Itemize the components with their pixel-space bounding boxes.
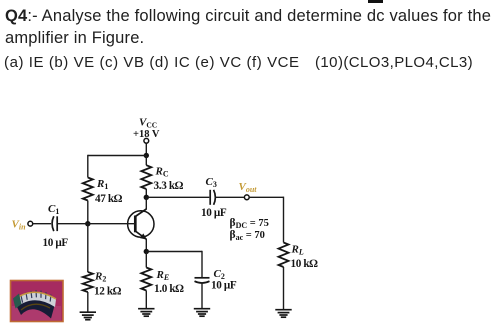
resistor RC <box>141 165 183 192</box>
wire RC bottom <box>145 189 147 197</box>
wire VCC stub <box>145 143 147 155</box>
svg-text:RL: RL <box>291 244 304 257</box>
svg-text:12 kΩ: 12 kΩ <box>94 285 122 297</box>
wire R1 top <box>87 155 89 178</box>
svg-text:VCC: VCC <box>139 117 157 130</box>
capacitor C3 <box>201 176 227 219</box>
wire Vout to RL corner <box>249 197 283 243</box>
wire RL to ground <box>283 267 285 310</box>
node emitter junction <box>144 249 149 254</box>
wire R1 bottom to base node <box>87 201 89 224</box>
svg-text:10 μF: 10 μF <box>201 207 227 219</box>
node base junction <box>85 221 90 226</box>
svg-text:RC: RC <box>155 166 169 179</box>
svg-text:10 μF: 10 μF <box>43 237 69 249</box>
wire emitter node to C2 branch <box>146 251 202 277</box>
node top junction <box>144 153 149 158</box>
resistor R2 <box>83 271 122 298</box>
svg-text:3.3 kΩ: 3.3 kΩ <box>154 180 184 192</box>
label beta DC = 75 <box>230 217 269 230</box>
svg-text:10 μF: 10 μF <box>211 279 237 291</box>
svg-text:1.0 kΩ: 1.0 kΩ <box>154 283 184 295</box>
resistor RE <box>141 252 184 296</box>
ground G1 <box>80 312 96 320</box>
wire R2 to ground <box>87 292 89 312</box>
terminal Vin <box>28 221 33 226</box>
ground G4 <box>275 310 291 318</box>
svg-text:C3: C3 <box>206 176 217 189</box>
svg-text:R2: R2 <box>94 271 106 284</box>
wire Vin to C1 <box>33 223 51 225</box>
sub-question list <box>4 54 300 71</box>
resistor R1 <box>83 178 123 206</box>
wire C2 to ground <box>201 283 203 308</box>
resistor RL <box>279 243 319 271</box>
svg-text:βac = 70: βac = 70 <box>230 229 265 242</box>
wire base node to transistor <box>88 223 136 225</box>
wire C3 to Vout <box>216 196 245 198</box>
capacitor C1 <box>43 203 69 249</box>
capacitor C2 <box>195 268 237 292</box>
label Vout <box>239 181 258 194</box>
label beta ac = 70 <box>230 229 265 242</box>
wire top horizontal <box>88 155 147 157</box>
wire base node to R2 <box>87 224 89 272</box>
svg-text:R1: R1 <box>96 178 108 191</box>
power VCC label +18 V <box>133 117 160 140</box>
svg-text:C1: C1 <box>48 203 59 216</box>
svg-text:10 kΩ: 10 kΩ <box>291 258 319 270</box>
node collector junction <box>144 195 149 200</box>
cropped text artifact top edge <box>368 0 383 3</box>
terminal Vout <box>244 195 249 200</box>
label Vin <box>12 219 27 232</box>
ground G3 <box>194 309 210 317</box>
wire emitter out of transistor <box>145 239 147 252</box>
svg-text:Vout: Vout <box>239 181 258 194</box>
wire collector node to C3 <box>146 196 209 198</box>
decorative photo (book arch on magenta) <box>11 281 64 322</box>
svg-text:RE: RE <box>156 269 170 282</box>
transistor Q1 (NPN) <box>128 209 154 240</box>
terminal VCC <box>144 138 149 143</box>
wire C1 to base node <box>57 223 88 225</box>
svg-text:Vin: Vin <box>12 219 27 232</box>
question text <box>5 5 496 49</box>
svg-text:47 kΩ: 47 kΩ <box>95 193 123 205</box>
wire collector into transistor <box>145 197 147 209</box>
wire RC top <box>145 156 147 166</box>
wire RE to ground <box>145 291 147 309</box>
ground G2 <box>138 309 154 317</box>
